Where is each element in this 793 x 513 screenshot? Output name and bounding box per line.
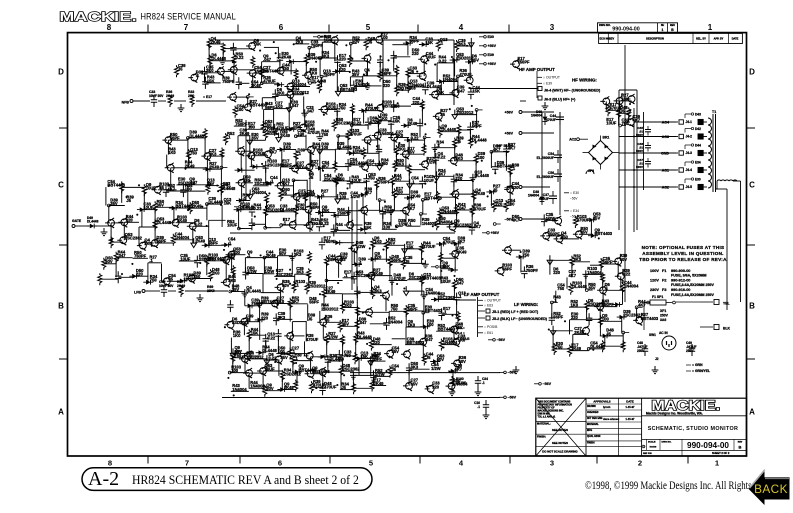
svg-text:J5: J5 (426, 355, 431, 360)
svg-text:LF AMP OUTPUT: LF AMP OUTPUT (464, 292, 500, 297)
svg-text:28K0: 28K0 (207, 289, 215, 293)
svg-text:○ GRN/YEL: ○ GRN/YEL (692, 369, 710, 373)
svg-text:FUSE, 3/6A, 5X20MM: FUSE, 3/6A, 5X20MM (671, 274, 707, 278)
svg-text:0.22: 0.22 (254, 206, 263, 211)
svg-text:REL. BY: REL. BY (696, 38, 706, 41)
svg-text:750PF: 750PF (311, 43, 324, 48)
svg-text:J4-2: J4-2 (686, 135, 693, 139)
svg-text:+56V: +56V (322, 35, 331, 39)
svg-text:GATE: GATE (72, 219, 82, 223)
svg-text:.1: .1 (482, 381, 485, 385)
svg-text:2K0: 2K0 (188, 94, 194, 98)
svg-text:100: 100 (297, 206, 305, 211)
svg-text:SH: SH (661, 24, 665, 27)
svg-text:10UF: 10UF (441, 279, 452, 284)
svg-text:none: none (650, 445, 657, 449)
svg-text:1N4004: 1N4004 (528, 194, 539, 198)
svg-text:1/2W: 1/2W (431, 366, 441, 371)
svg-text:1N4004: 1N4004 (531, 114, 542, 118)
svg-text:B: B (739, 445, 742, 450)
svg-text:J6-3 (BLU) HF+ (+): J6-3 (BLU) HF+ (+) (544, 98, 576, 102)
svg-text:+56V: +56V (505, 111, 514, 115)
svg-text:F1 SP1: F1 SP1 (652, 295, 663, 299)
svg-text:0.22: 0.22 (223, 185, 232, 190)
svg-text:J4-5: J4-5 (686, 185, 693, 189)
svg-text:MACKIE.: MACKIE. (60, 10, 137, 24)
svg-text:ASSEMBLY LEVEL IN QUESTION.: ASSEMBLY LEVEL IN QUESTION. (642, 251, 724, 256)
svg-text:LF BIAS: LF BIAS (454, 336, 470, 341)
svg-text:F2: F2 (662, 279, 666, 283)
svg-text:3K3: 3K3 (228, 278, 236, 283)
svg-text:15K: 15K (224, 200, 232, 205)
svg-text:220: 220 (339, 57, 347, 62)
svg-text:NOTE: OPTIONAL FUSES AT THIS: NOTE: OPTIONAL FUSES AT THIS (642, 245, 725, 250)
svg-text:AC3: AC3 (662, 135, 669, 139)
svg-text:REV: REV (670, 24, 675, 27)
svg-text:DRAWN: DRAWN (587, 405, 596, 408)
svg-text:BACK: BACK (754, 482, 788, 496)
svg-text:−56V: −56V (505, 186, 514, 190)
svg-text:SHEET 2 OF 2: SHEET 2 OF 2 (712, 451, 730, 455)
svg-text:E30: E30 (695, 177, 701, 181)
svg-text:○ E17: ○ E17 (203, 95, 212, 99)
svg-text:J6-4 (WHT) HF− (UNGROUNDED): J6-4 (WHT) HF− (UNGROUNDED) (544, 88, 601, 92)
svg-text:2K49: 2K49 (177, 284, 185, 288)
svg-text:DWG NO.: DWG NO. (599, 23, 611, 27)
svg-text:EL.5600UF: EL.5600UF (537, 156, 554, 160)
svg-text:FUSE,3.6A,5X20MM 250V: FUSE,3.6A,5X20MM 250V (671, 283, 715, 287)
svg-text:4K7: 4K7 (408, 206, 416, 211)
svg-text:YEL: YEL (723, 302, 730, 306)
svg-text:2: 2 (638, 459, 642, 468)
svg-text:990-912-00: 990-912-00 (671, 279, 690, 283)
svg-text:J5: J5 (126, 198, 131, 203)
svg-text:J5: J5 (368, 40, 373, 45)
svg-text:J5-1 ○: J5-1 ○ (456, 326, 465, 330)
svg-text:DWG NO.: DWG NO. (662, 442, 672, 444)
svg-text:7: 7 (184, 23, 189, 32)
svg-text:J4-1: J4-1 (686, 120, 693, 124)
svg-text:J5-1 (RED) LF + (RED DOT): J5-1 (RED) LF + (RED DOT) (492, 310, 539, 314)
svg-text:DESCRIPTION: DESCRIPTION (646, 37, 664, 41)
svg-text:250V: 250V (637, 349, 645, 353)
svg-text:○ POS/B: ○ POS/B (484, 325, 498, 329)
svg-text:56PF: 56PF (409, 39, 419, 44)
svg-text:XF1: XF1 (660, 309, 666, 313)
svg-text:AC2: AC2 (569, 138, 576, 142)
svg-text:750: 750 (339, 106, 347, 111)
svg-text:50V: 50V (282, 283, 290, 288)
svg-text:○ E63: ○ E63 (484, 304, 493, 308)
svg-text:750PF: 750PF (222, 79, 235, 84)
svg-text:−56V: −56V (497, 338, 506, 342)
svg-text:D43: D43 (695, 112, 701, 116)
svg-text:BBT4403: BBT4403 (425, 308, 443, 313)
svg-text:15K: 15K (393, 118, 401, 123)
svg-text:J4-3: J4-3 (686, 151, 693, 155)
svg-text:MATERIAL:: MATERIAL: (537, 423, 551, 426)
svg-text:C: C (58, 181, 64, 190)
svg-text:.047: .047 (425, 337, 434, 342)
svg-text:+56V: +56V (488, 62, 497, 66)
svg-text:4K7: 4K7 (638, 303, 646, 308)
svg-text:E39: E39 (488, 53, 494, 57)
svg-text:○ GRN: ○ GRN (692, 363, 703, 367)
svg-text:2SD2012: 2SD2012 (321, 306, 339, 311)
svg-text:D: D (58, 68, 64, 77)
svg-text:BR1: BR1 (603, 136, 610, 140)
svg-text:56PF: 56PF (309, 300, 319, 305)
svg-text:6: 6 (278, 459, 282, 468)
svg-text:.047: .047 (359, 320, 368, 325)
svg-text:1-15-97: 1-15-97 (626, 405, 635, 409)
svg-text:−56V: −56V (570, 215, 578, 219)
svg-text:470UF: 470UF (306, 337, 319, 342)
svg-text:RFT DES ENG: RFT DES ENG (587, 418, 603, 420)
svg-text:2K49: 2K49 (281, 54, 292, 59)
svg-text:1: 1 (708, 23, 713, 32)
svg-text:TBD PRIOR TO RELEASE OF REV:A: TBD PRIOR TO RELEASE OF REV:A (639, 257, 727, 262)
svg-text:MATERIAL: MATERIAL (587, 423, 599, 426)
svg-text:750: 750 (344, 353, 352, 358)
svg-text:−56V: −56V (508, 371, 517, 375)
svg-text:3: 3 (550, 23, 555, 32)
svg-text:50V: 50V (620, 257, 628, 262)
svg-text:REV: REV (609, 38, 614, 41)
svg-text:250V: 250V (660, 314, 669, 318)
svg-text:1N4004: 1N4004 (252, 190, 267, 195)
svg-text:D42: D42 (695, 127, 701, 131)
svg-text:○ E30: ○ E30 (570, 191, 579, 195)
svg-text:2K49: 2K49 (457, 249, 468, 254)
svg-text:750: 750 (321, 132, 329, 137)
svg-text:100: 100 (427, 322, 435, 327)
svg-text:2SC2362: 2SC2362 (356, 273, 374, 278)
svg-text:35V: 35V (588, 286, 596, 291)
svg-text:.1: .1 (477, 405, 480, 409)
svg-text:−56V: −56V (508, 396, 517, 400)
svg-text:0.22: 0.22 (622, 272, 631, 277)
svg-text:750PF: 750PF (378, 179, 391, 184)
svg-text:.047: .047 (456, 281, 465, 286)
svg-text:J5: J5 (440, 112, 445, 117)
svg-text:TOL ±.1 ANG ±1: TOL ±.1 ANG ±1 (538, 416, 557, 419)
svg-text:4K7: 4K7 (270, 150, 278, 155)
svg-text:0.22: 0.22 (267, 335, 276, 340)
svg-text:35V: 35V (280, 355, 288, 360)
svg-text:2K49: 2K49 (407, 121, 418, 126)
svg-text:J5: J5 (493, 187, 498, 192)
svg-text:SEE NOTES: SEE NOTES (552, 441, 568, 445)
svg-text:470UF: 470UF (308, 130, 321, 135)
svg-text:Mackie Designs Inc. Woodinvi: Mackie Designs Inc. Woodinville, WA. (646, 411, 703, 415)
svg-text:470UF: 470UF (474, 206, 487, 211)
svg-text:HF BIAS: HF BIAS (497, 143, 513, 148)
svg-text:QUAL ASSR: QUAL ASSR (587, 435, 601, 438)
svg-text:J5: J5 (178, 67, 183, 72)
svg-text:220: 220 (432, 384, 440, 389)
svg-text:750: 750 (150, 278, 158, 283)
svg-text:10UF: 10UF (606, 121, 617, 126)
svg-text:470UF: 470UF (423, 244, 436, 249)
svg-text:J5: J5 (391, 367, 396, 372)
svg-text:250V: 250V (686, 349, 694, 353)
svg-text:990-094-00: 990-094-00 (612, 26, 640, 32)
svg-text:SCHEMATIC, STUDIO MONITOR: SCHEMATIC, STUDIO MONITOR (648, 426, 739, 432)
svg-text:4K7: 4K7 (569, 273, 577, 278)
svg-text:E56: E56 (440, 265, 446, 269)
svg-text:LF WIRING:: LF WIRING: (514, 302, 539, 307)
svg-text:4: 4 (459, 23, 464, 32)
svg-text:220: 220 (261, 315, 269, 320)
svg-text:4K7: 4K7 (455, 367, 463, 372)
svg-text:J5: J5 (308, 316, 313, 321)
svg-text:220: 220 (412, 51, 420, 56)
svg-text:15K: 15K (364, 225, 372, 230)
svg-text:FINISH:: FINISH: (537, 436, 546, 439)
svg-text:8: 8 (107, 23, 112, 32)
svg-text:3: 3 (550, 459, 554, 468)
svg-text:C: C (749, 181, 755, 190)
svg-text:E30: E30 (488, 35, 494, 39)
svg-text:1K 2W: 1K 2W (456, 381, 466, 385)
svg-text:5: 5 (366, 23, 371, 32)
svg-text:E34: E34 (695, 160, 701, 164)
svg-text:2K49: 2K49 (166, 94, 174, 98)
svg-text:HR824 SCHEMATIC REV A and B sh: HR824 SCHEMATIC REV A and B sheet 2 of 2 (132, 473, 359, 487)
svg-text:DL4448: DL4448 (572, 284, 587, 289)
svg-text:750: 750 (557, 286, 565, 291)
svg-text:0.22: 0.22 (236, 55, 245, 60)
svg-text:10UF: 10UF (426, 55, 437, 60)
svg-text:4K7: 4K7 (458, 239, 466, 244)
svg-text:BLK: BLK (723, 327, 731, 331)
svg-text:10UF: 10UF (424, 178, 435, 183)
svg-text:35V: 35V (593, 215, 601, 220)
svg-text:0.22: 0.22 (321, 221, 330, 226)
svg-text:○ E61: ○ E61 (484, 331, 493, 335)
svg-text:990-916-00: 990-916-00 (671, 288, 690, 292)
svg-text:DO NOT SCALE DRAWING: DO NOT SCALE DRAWING (542, 449, 577, 453)
svg-text:120V: 120V (650, 279, 659, 283)
svg-text:990-900-00: 990-900-00 (671, 269, 690, 273)
svg-text:4K7: 4K7 (365, 190, 373, 195)
svg-text:470UF: 470UF (324, 385, 337, 390)
svg-text:470UF: 470UF (459, 72, 472, 77)
svg-text:2SC2362: 2SC2362 (336, 121, 354, 126)
svg-text:B: B (749, 302, 755, 311)
svg-text:56PF: 56PF (502, 266, 512, 271)
svg-text:lynch: lynch (603, 405, 611, 409)
svg-text:GND: GND (661, 152, 669, 156)
svg-text:35V: 35V (340, 255, 348, 260)
svg-text:1K0: 1K0 (233, 333, 241, 338)
svg-text:DATE: DATE (626, 400, 634, 404)
svg-text:AC1: AC1 (662, 169, 669, 173)
svg-text:2K0: 2K0 (212, 271, 220, 276)
svg-text:100V: 100V (650, 269, 659, 273)
svg-text:4K7: 4K7 (473, 224, 481, 229)
svg-text:SEE NOTES: SEE NOTES (552, 428, 568, 432)
svg-text:100: 100 (478, 155, 486, 160)
svg-text:35V: 35V (411, 381, 419, 386)
svg-text:56PF: 56PF (310, 205, 320, 210)
svg-text:D44: D44 (695, 143, 701, 147)
svg-text:B: B (58, 302, 64, 311)
svg-text:HR824 SERVICE MANUAL: HR824 SERVICE MANUAL (141, 11, 237, 22)
svg-text:50V: 50V (437, 357, 445, 362)
svg-text:A: A (58, 408, 64, 417)
svg-text:+56V: +56V (491, 231, 500, 235)
svg-text:1: 1 (662, 28, 664, 32)
svg-text:3A6: 3A6 (660, 318, 666, 322)
svg-text:1K0: 1K0 (168, 150, 176, 155)
svg-text:750PF: 750PF (526, 268, 539, 273)
svg-text:230V: 230V (650, 288, 659, 292)
svg-text:10UF 50V: 10UF 50V (159, 284, 174, 288)
svg-text:EL.5600UF: EL.5600UF (537, 175, 554, 179)
svg-text:470UF: 470UF (350, 131, 363, 136)
svg-text:D: D (642, 444, 645, 449)
svg-text:SW1: SW1 (649, 333, 656, 337)
svg-text:J4-4: J4-4 (686, 168, 693, 172)
svg-text:.047: .047 (306, 109, 315, 114)
svg-text:990-094-00: 990-094-00 (687, 441, 729, 450)
svg-text:HF WIRING:: HF WIRING: (572, 78, 597, 83)
svg-text:○ OUTPUT: ○ OUTPUT (484, 299, 501, 303)
svg-text:1-15-97: 1-15-97 (626, 417, 635, 421)
svg-text:1/2W: 1/2W (398, 222, 408, 227)
svg-text:750: 750 (381, 161, 389, 166)
svg-text:BBT4403: BBT4403 (595, 231, 613, 236)
svg-text:REF P/N: REF P/N (643, 453, 652, 455)
svg-text:○ E39: ○ E39 (543, 82, 552, 86)
svg-text:2K49: 2K49 (411, 193, 422, 198)
svg-text:SCALE: SCALE (648, 441, 656, 444)
svg-text:AC IN: AC IN (659, 331, 668, 335)
svg-text:J5-2 ○: J5-2 ○ (456, 331, 465, 335)
svg-text:750PF: 750PF (518, 60, 531, 65)
svg-text:F3: F3 (662, 288, 666, 292)
svg-text:2K49: 2K49 (195, 239, 206, 244)
svg-text:APP. BY: APP. BY (714, 38, 724, 41)
svg-text:CHECKED: CHECKED (587, 412, 599, 414)
svg-text:BBT4403: BBT4403 (641, 316, 659, 321)
svg-text:2K49: 2K49 (475, 191, 486, 196)
svg-text:DL4448: DL4448 (157, 220, 172, 225)
svg-text:10UF 50V: 10UF 50V (149, 94, 164, 98)
svg-text:100: 100 (381, 35, 389, 40)
svg-text:○ OUTPUT: ○ OUTPUT (543, 76, 560, 80)
svg-text:LFB: LFB (134, 291, 141, 295)
svg-text:.047: .047 (457, 88, 466, 93)
svg-text:15K: 15K (425, 40, 433, 45)
svg-text:56PF: 56PF (472, 124, 482, 129)
svg-text:J2: J2 (655, 357, 659, 361)
svg-text:MFG: MFG (587, 430, 592, 432)
svg-text:dave ahmed: dave ahmed (603, 417, 619, 421)
svg-text:.047: .047 (291, 103, 300, 108)
svg-text:2K49: 2K49 (280, 133, 291, 138)
svg-text:100: 100 (508, 201, 516, 206)
svg-text:50V: 50V (352, 39, 360, 44)
svg-text:10UF: 10UF (227, 222, 238, 227)
svg-text:15K: 15K (472, 89, 480, 94)
svg-text:−56V: −56V (570, 197, 578, 201)
svg-text:750: 750 (522, 252, 530, 257)
svg-text:AC2: AC2 (662, 186, 669, 190)
svg-text:8: 8 (108, 459, 112, 468)
svg-text:−56V: −56V (505, 218, 514, 222)
svg-text:F1: F1 (662, 269, 666, 273)
svg-text:DL4448: DL4448 (472, 138, 487, 143)
svg-text:DATE: DATE (732, 38, 739, 41)
svg-text:BBT4403: BBT4403 (423, 276, 441, 281)
svg-text:E36: E36 (243, 205, 249, 209)
svg-text:FINISH: FINISH (587, 443, 595, 445)
svg-text:J5: J5 (309, 175, 314, 180)
svg-text:500V: 500V (636, 165, 643, 169)
svg-text:AC4: AC4 (662, 121, 669, 125)
svg-text:DL4448: DL4448 (87, 220, 99, 224)
svg-text:A: A (749, 408, 755, 417)
svg-text:J5: J5 (456, 139, 461, 144)
svg-text:○ E34: ○ E34 (570, 209, 579, 213)
svg-text:6: 6 (279, 23, 284, 32)
svg-text:T1: T1 (712, 110, 716, 114)
svg-text:2SC2362: 2SC2362 (125, 236, 143, 241)
svg-text:56PF: 56PF (553, 315, 563, 320)
svg-text:DL4448: DL4448 (474, 173, 489, 178)
svg-text:1N4004: 1N4004 (388, 319, 403, 324)
svg-text:3K3: 3K3 (294, 252, 302, 257)
svg-text:35V: 35V (392, 349, 400, 354)
svg-text:4K7: 4K7 (311, 163, 319, 168)
svg-text:35V: 35V (472, 57, 480, 62)
svg-text:DL4448: DL4448 (246, 289, 261, 294)
svg-text:1N4004: 1N4004 (624, 284, 639, 289)
svg-text:15K: 15K (254, 41, 262, 46)
svg-text:220: 220 (553, 270, 561, 275)
svg-text:APPROVALS: APPROVALS (593, 400, 610, 404)
svg-text:D: D (749, 68, 755, 77)
svg-text:FUSE,1.6A,5X20MM 250V: FUSE,1.6A,5X20MM 250V (671, 293, 715, 297)
svg-text:+56V: +56V (488, 44, 497, 48)
svg-text:7: 7 (185, 459, 189, 468)
svg-text:−56V: −56V (543, 382, 552, 386)
svg-text:750: 750 (368, 175, 376, 180)
svg-text:NFB: NFB (122, 101, 130, 105)
svg-text:100: 100 (237, 107, 245, 112)
svg-text:REV: REV (738, 442, 743, 444)
svg-text:1/2W: 1/2W (356, 244, 366, 249)
svg-text:750: 750 (311, 221, 319, 226)
svg-text:220: 220 (383, 83, 391, 88)
svg-text:J5-2 (BLK) LF− (UNGROUNDED): J5-2 (BLK) LF− (UNGROUNDED) (492, 317, 548, 321)
svg-text:750PF: 750PF (323, 72, 336, 77)
svg-text:750: 750 (190, 151, 198, 156)
svg-text:0.22: 0.22 (437, 154, 446, 159)
svg-text:100: 100 (307, 193, 315, 198)
svg-text:A-2: A-2 (88, 468, 119, 490)
svg-text:+56V: +56V (505, 132, 514, 136)
